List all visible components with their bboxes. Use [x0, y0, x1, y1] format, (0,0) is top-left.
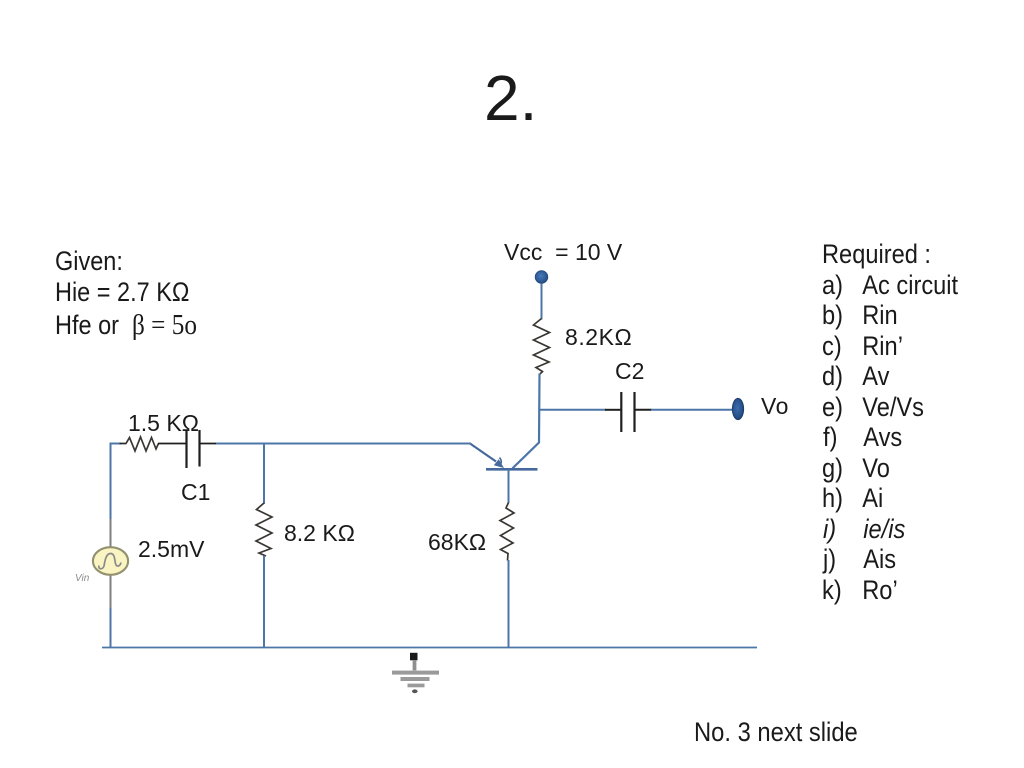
- capacitor C1 right plate: [198, 430, 200, 467]
- wire emitter vertical top: [508, 469, 510, 503]
- ground bar 3: [408, 684, 425, 688]
- capacitor C2 left plate: [620, 392, 622, 432]
- label 8.2Kohm collector resistor: [565, 326, 632, 349]
- ground bar 2: [401, 677, 430, 681]
- resistor 1.5K zigzag: [120, 443, 127, 445]
- required block: [822, 241, 931, 268]
- transistor Q1 arrowhead curl: [500, 458, 502, 465]
- label C2: [615, 360, 644, 383]
- label Vcc = 10 V: [504, 241, 622, 264]
- wire bias branch vertical bottom: [263, 556, 265, 648]
- transistor Q1 emitter arrowhead: [494, 459, 504, 468]
- capacitor C2 left lead: [605, 409, 621, 411]
- label 2.5mV: [138, 538, 204, 561]
- wire emitter vertical bottom: [508, 560, 510, 648]
- capacitor C1 right lead: [200, 443, 217, 445]
- capacitor C1 left lead: [158, 443, 186, 445]
- wire C2 to output terminal: [651, 409, 733, 411]
- wire input to transistor: [216, 443, 471, 445]
- title "2.": [484, 66, 537, 130]
- resistor 68K zigzag: [500, 503, 514, 561]
- wire source top stub: [110, 443, 122, 445]
- node Vcc terminal dot: [535, 271, 548, 284]
- label 8.2 Kohm bias resistor: [284, 522, 355, 545]
- label 1.5 Kohm: [128, 412, 199, 435]
- capacitor C1 left plate: [185, 430, 187, 469]
- ground stem: [413, 660, 417, 670]
- given block: [55, 248, 123, 275]
- wire Vcc dot to collector resistor: [541, 284, 543, 320]
- capacitor C2 right plate: [633, 392, 635, 432]
- capacitor C2 right lead: [635, 409, 652, 411]
- wire collector node to C2: [539, 409, 607, 411]
- source Vin sine wave: [99, 554, 121, 569]
- transistor Q1 base bar: [486, 468, 538, 471]
- resistor 8.2K collector zigzag: [534, 319, 550, 375]
- ground bar 1: [392, 671, 439, 675]
- label Vin: [75, 574, 89, 584]
- resistor 8.2K bias zigzag: [256, 503, 272, 556]
- footer note: [694, 719, 858, 746]
- source Vin circle: [93, 547, 128, 575]
- wire bottom rail: [102, 647, 757, 649]
- ground tip dot: [412, 689, 418, 693]
- label 68Kohm: [428, 531, 486, 554]
- label Vo: [761, 395, 789, 418]
- wire left vertical source branch: [110, 444, 112, 648]
- transistor Q1 emitter diagonal wire: [470, 444, 496, 462]
- wire gray lead of source: [110, 519, 112, 608]
- label C1: [181, 481, 210, 504]
- node Vo output terminal ellipse: [732, 398, 743, 419]
- wire bias branch vertical top: [263, 444, 265, 505]
- wire collector resistor to collector node: [513, 374, 540, 469]
- ground connector square: [410, 653, 418, 661]
- resistor 1.5K zigzag body: [126, 437, 159, 451]
